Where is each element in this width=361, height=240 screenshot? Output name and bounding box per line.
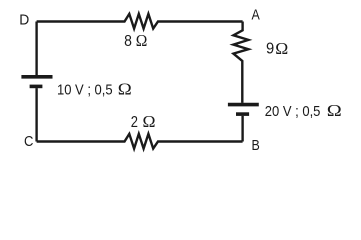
svg-text:20 V ; 0,5: 20 V ; 0,5 (265, 104, 321, 120)
svg-text:8: 8 (124, 33, 132, 50)
battery E2 20V long plate (228, 103, 259, 107)
svg-text:D: D (19, 11, 29, 28)
svg-text:Ω: Ω (327, 101, 342, 120)
svg-text:Ω: Ω (136, 31, 148, 50)
battery E1 10V short plate (30, 85, 43, 89)
battery E1 10V long plate (21, 75, 52, 79)
wire right lower (battery to B corner) (241, 116, 243, 142)
wire left upper (D corner to battery) (35, 22, 37, 76)
wire right upper + resistor 9 ohm zigzag (233, 22, 248, 103)
wire bottom (C to B) with resistor 2 ohm zigzag (37, 134, 243, 149)
battery E1 value label 10 V ; 0,5 ohm (57, 80, 132, 99)
svg-text:A: A (252, 7, 261, 24)
wire left lower (battery to C corner) (35, 88, 37, 141)
svg-text:B: B (252, 137, 260, 154)
svg-text:C: C (24, 133, 33, 150)
svg-text:2: 2 (131, 114, 138, 131)
svg-text:Ω: Ω (118, 80, 132, 99)
resistor R2 9 ohm value label (266, 39, 288, 58)
battery E2 value label 20 V ; 0,5 ohm (265, 101, 342, 120)
svg-text:Ω: Ω (143, 112, 156, 131)
resistor R3 2 ohm value label (131, 112, 156, 131)
svg-text:10 V ; 0,5: 10 V ; 0,5 (57, 83, 113, 99)
battery E2 20V short plate (236, 112, 249, 116)
wire top (D to A) with resistor 8 ohm zigzag (37, 14, 243, 29)
svg-text:Ω: Ω (275, 39, 288, 58)
svg-text:9: 9 (266, 41, 274, 58)
resistor R1 8 ohm value label (124, 31, 147, 50)
